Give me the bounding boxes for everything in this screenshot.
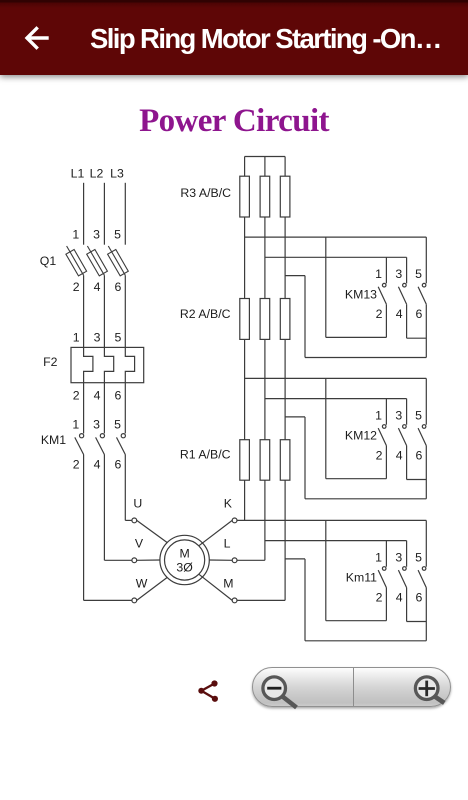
svg-text:KM13: KM13 [345,287,377,301]
svg-text:4: 4 [94,458,101,472]
svg-text:M: M [179,547,189,561]
svg-text:5: 5 [415,551,422,565]
svg-text:L2: L2 [90,167,104,181]
svg-text:5: 5 [415,267,422,281]
svg-text:3: 3 [395,409,402,423]
svg-text:6: 6 [114,280,121,294]
svg-text:1: 1 [72,417,79,431]
svg-text:Km11: Km11 [346,571,377,585]
svg-text:R3 A/B/C: R3 A/B/C [180,186,231,200]
svg-text:R2 A/B/C: R2 A/B/C [180,307,231,321]
svg-text:V: V [135,536,144,550]
svg-text:4: 4 [94,389,101,403]
svg-text:W: W [136,577,148,591]
svg-text:5: 5 [415,409,422,423]
svg-text:1: 1 [73,330,80,344]
svg-text:6: 6 [415,448,422,462]
svg-text:3: 3 [395,267,402,281]
svg-text:1: 1 [72,228,79,242]
svg-text:6: 6 [114,458,121,472]
svg-text:3: 3 [395,551,402,565]
svg-text:1: 1 [375,267,382,281]
svg-text:4: 4 [396,448,403,462]
svg-text:M: M [223,577,233,591]
svg-text:1: 1 [375,409,382,423]
svg-text:3Ø: 3Ø [176,560,193,574]
svg-text:L3: L3 [110,167,124,181]
svg-text:L: L [224,536,231,550]
svg-text:U: U [133,497,142,511]
svg-text:4: 4 [396,590,403,604]
svg-text:KM12: KM12 [345,429,377,443]
svg-text:L1: L1 [71,167,85,181]
svg-text:3: 3 [93,417,100,431]
svg-text:6: 6 [114,389,121,403]
svg-text:K: K [224,497,233,511]
svg-text:1: 1 [375,551,382,565]
svg-text:3: 3 [94,330,101,344]
svg-text:2: 2 [73,458,80,472]
svg-text:2: 2 [376,590,383,604]
svg-text:2: 2 [376,307,383,321]
svg-text:5: 5 [114,417,121,431]
svg-text:2: 2 [376,448,383,462]
svg-text:6: 6 [415,307,422,321]
svg-text:5: 5 [114,228,121,242]
svg-text:2: 2 [73,280,80,294]
svg-text:F2: F2 [43,355,58,369]
svg-text:5: 5 [114,330,121,344]
svg-text:KM1: KM1 [41,433,66,447]
svg-text:2: 2 [73,389,80,403]
svg-text:R1 A/B/C: R1 A/B/C [180,448,231,462]
svg-text:4: 4 [94,280,101,294]
svg-text:3: 3 [93,228,100,242]
svg-text:4: 4 [396,307,403,321]
svg-text:Q1: Q1 [40,254,57,268]
svg-text:6: 6 [415,590,422,604]
